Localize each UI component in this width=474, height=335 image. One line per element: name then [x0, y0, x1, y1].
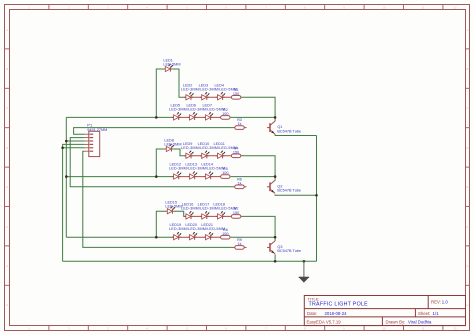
wire LED15 anode drop [156, 211, 166, 237]
svg-text:BC547B Tube: BC547B Tube [277, 249, 301, 253]
LED LED17 [200, 211, 209, 219]
svg-text:1.0: 1.0 [442, 299, 449, 304]
frame tick marks top/bottom [48, 5, 50, 10]
wire pin2 to block2 base row [70, 138, 232, 187]
wire right emitter rail [316, 136, 318, 262]
svg-text:LED-3MM/LED-3MM/LED-5MM: LED-3MM/LED-3MM/LED-5MM [169, 227, 225, 231]
LED LED3 [200, 92, 209, 100]
svg-text:12: 12 [453, 6, 457, 10]
svg-text:H: H [466, 303, 468, 307]
wire R8 to Q3 collector node [231, 236, 276, 238]
junction [274, 236, 277, 239]
LED LED16 [184, 211, 193, 219]
wire pin4 to ground vertical rail [63, 144, 85, 261]
svg-text:LED-3MM/LED-3MM/LED-5MM: LED-3MM/LED-3MM/LED-5MM [181, 87, 237, 91]
svg-text:H: H [6, 303, 8, 307]
svg-text:Date:: Date: [307, 311, 317, 316]
resistor R8 [221, 235, 230, 239]
LED LED9 [184, 151, 193, 159]
svg-text:Drawn By:: Drawn By: [386, 319, 406, 324]
wire base resistor leads [233, 246, 247, 248]
wire bottom ground rail [63, 260, 317, 262]
svg-text:11: 11 [422, 327, 425, 331]
junction [303, 260, 306, 263]
wire R2 to Q1 collector node [231, 116, 276, 118]
svg-text:2018-08-24: 2018-08-24 [325, 311, 348, 316]
LED LED15 [166, 206, 175, 214]
svg-text:A: A [6, 28, 8, 32]
svg-text:D: D [466, 146, 468, 150]
transistor Q2 BC547B [267, 180, 275, 193]
svg-text:100: 100 [222, 232, 228, 236]
svg-text:P1: P1 [87, 122, 93, 127]
wire pin5 stub to ground rail [63, 147, 85, 149]
resistor R4 [231, 154, 240, 158]
svg-text:Sheet:: Sheet: [418, 311, 430, 316]
svg-text:1k: 1k [237, 122, 241, 126]
LED LED20 [188, 232, 197, 240]
wire lower LED string leads [172, 236, 230, 238]
svg-text:1k: 1k [237, 242, 241, 246]
svg-text:REV:: REV: [431, 299, 441, 304]
svg-text:150: 150 [233, 92, 239, 96]
wire Q3 emitter drop [274, 254, 276, 261]
junction [274, 116, 277, 119]
resistor R3 [235, 126, 244, 130]
svg-text:10: 10 [382, 6, 386, 10]
LED LED11 [216, 151, 225, 159]
resistor R6 [235, 185, 244, 189]
svg-text:A: A [467, 28, 469, 32]
transistor Q3 BC547B [267, 241, 275, 254]
svg-text:100: 100 [222, 112, 228, 116]
wire Q2 emitter to right rail [275, 193, 316, 196]
svg-text:B: B [467, 67, 469, 71]
svg-text:1/1: 1/1 [433, 311, 440, 316]
svg-text:12: 12 [453, 327, 457, 331]
svg-text:11: 11 [422, 6, 425, 10]
svg-text:LED-3MM/LED-3MM/LED-5MM: LED-3MM/LED-3MM/LED-5MM [169, 107, 225, 111]
wire LED8 to LED9 string [173, 149, 184, 156]
svg-text:F: F [467, 225, 469, 229]
wire block2 feed row [66, 176, 172, 178]
wire block3 feed row [66, 236, 172, 238]
svg-text:E: E [6, 185, 8, 189]
svg-text:C: C [6, 106, 8, 110]
LED LED5 [172, 112, 181, 120]
wire upper LED string leads [184, 215, 241, 217]
wire LED1 to LED2 string [172, 69, 184, 97]
resistor R2 [221, 116, 230, 120]
resistor R7 [231, 215, 240, 219]
junction [65, 140, 68, 143]
LED LED2 [184, 92, 193, 100]
wire base resistor leads [233, 127, 247, 129]
LED LED7 [204, 112, 213, 120]
junction [155, 116, 158, 119]
resistor R9 [235, 246, 244, 250]
wire upper LED string leads [184, 96, 241, 98]
svg-text:LED-3MM/LED-3MM/LED-5MM: LED-3MM/LED-3MM/LED-5MM [181, 146, 237, 150]
svg-text:F: F [6, 225, 8, 229]
svg-text:LED-3MM/LED-3MM/LED-5MM: LED-3MM/LED-3MM/LED-5MM [181, 206, 237, 210]
frame tick marks left/right [5, 48, 10, 50]
wire block1 feed row [66, 116, 172, 118]
wire pin1 to block1 base row [74, 128, 233, 135]
wire R1 to Q1 collector node [241, 97, 276, 121]
junction [274, 260, 277, 263]
ground GND [299, 261, 309, 282]
wire R4 to Q2 collector node [241, 156, 276, 181]
svg-text:100: 100 [222, 171, 228, 175]
wire pin3 stub to +V rail [66, 140, 85, 142]
svg-text:C: C [466, 106, 468, 110]
wire +V vertical rail [65, 117, 67, 237]
svg-text:Viral Dodhia: Viral Dodhia [408, 319, 432, 324]
LED LED8 [165, 144, 174, 152]
svg-text:LED-5MM: LED-5MM [163, 62, 180, 66]
wire lower LED string leads [172, 176, 230, 178]
svg-text:1k: 1k [237, 181, 241, 185]
junction [65, 175, 68, 178]
LED LED12 [172, 172, 181, 180]
wire lower LED string leads [172, 116, 230, 118]
junction [155, 175, 158, 178]
wire R5 to Q2 collector node [231, 176, 276, 178]
LED LED10 [200, 151, 209, 159]
wire pin6 to block3 base row [83, 151, 233, 247]
title block [304, 296, 465, 326]
LED LED1 [164, 64, 173, 72]
svg-text:G: G [6, 264, 8, 268]
wire LED8 anode drop [156, 149, 165, 177]
LED LED4 [216, 92, 225, 100]
junction [61, 147, 64, 150]
wire Q1 emitter to right rail [275, 134, 316, 135]
LED LED13 [188, 172, 197, 180]
svg-text:BC547B Tube: BC547B Tube [277, 129, 301, 133]
resistor R5 [221, 175, 230, 179]
svg-text:E: E [467, 185, 469, 189]
svg-text:TRAFFIC LIGHT POLE: TRAFFIC LIGHT POLE [309, 301, 369, 307]
LED LED19 [172, 232, 181, 240]
svg-text:150: 150 [233, 150, 239, 154]
svg-text:BC547B Tube: BC547B Tube [277, 189, 301, 193]
wire upper LED string leads [184, 155, 241, 157]
svg-text:B: B [6, 67, 8, 71]
svg-text:EasyEDA V5.7.19: EasyEDA V5.7.19 [307, 319, 342, 324]
connector P1 header [85, 131, 100, 156]
junction [315, 194, 318, 197]
LED LED14 [204, 172, 213, 180]
svg-text:G: G [466, 264, 468, 268]
LED LED18 [216, 211, 225, 219]
resistor R1 [231, 96, 240, 100]
svg-text:LED-3MM/LED-3MM/LED-5MM: LED-3MM/LED-3MM/LED-5MM [169, 167, 225, 171]
svg-text:10: 10 [382, 327, 386, 331]
svg-text:9491 27MM: 9491 27MM [87, 128, 107, 132]
transistor Q1 BC547B [267, 121, 275, 134]
svg-text:150: 150 [233, 211, 239, 215]
wire LED1 anode drop [156, 69, 164, 117]
LED LED6 [188, 112, 197, 120]
wire base resistor leads [233, 186, 247, 188]
svg-text:LED-5MM: LED-5MM [165, 205, 182, 209]
junction [274, 175, 277, 178]
LED LED21 [204, 232, 213, 240]
svg-text:D: D [6, 146, 8, 150]
wire LED15 to LED16 string [174, 211, 184, 216]
wire R7 to Q3 collector node [241, 216, 276, 241]
junction [155, 236, 158, 239]
svg-text:LED-5MM: LED-5MM [164, 142, 181, 146]
